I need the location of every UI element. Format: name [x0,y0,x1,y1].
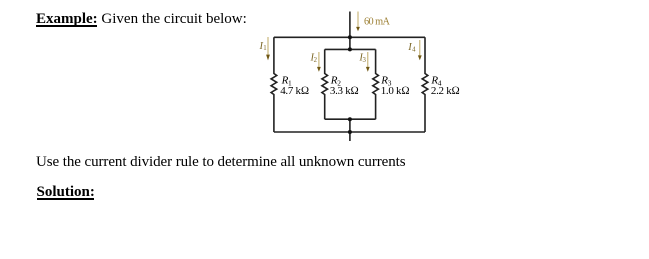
svg-text:4.7 kΩ: 4.7 kΩ [280,85,309,97]
svg-text:2.2 kΩ: 2.2 kΩ [431,85,460,97]
svg-text:60 mA: 60 mA [364,16,390,27]
svg-text:1.0 kΩ: 1.0 kΩ [381,85,410,97]
svg-text:1: 1 [263,45,266,52]
svg-text:2: 2 [314,57,318,64]
svg-text:3.3 kΩ: 3.3 kΩ [330,85,359,97]
svg-text:4: 4 [412,46,416,53]
svg-text:3: 3 [363,57,367,64]
